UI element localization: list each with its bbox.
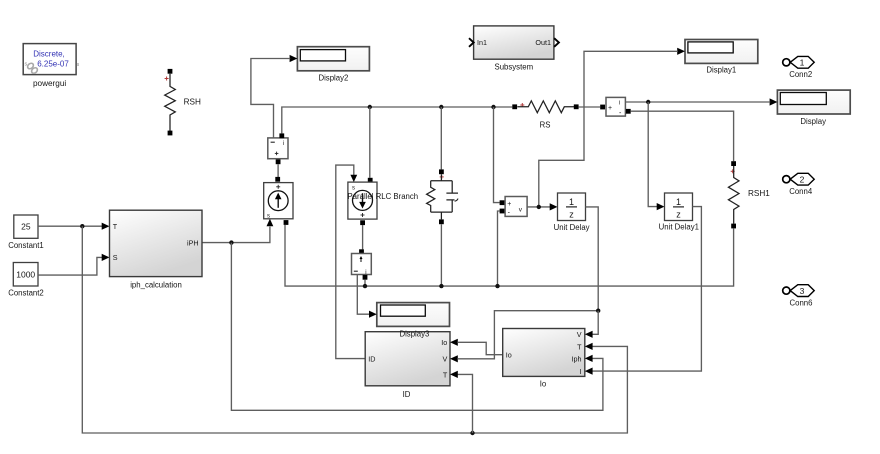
Conn6 hexagon with pin number 3 [790,285,814,297]
svg-text:Constant2: Constant2 [8,289,44,298]
current measurement i2 top port [359,249,364,254]
svg-text:Io: Io [540,379,547,388]
node bus junction to voltage measurement plus [491,105,495,109]
voltage measurement block U1 [505,197,527,217]
resistor RSH1 red plus [731,169,735,173]
svg-text:1: 1 [800,58,805,68]
svg-text:Io: Io [441,338,447,347]
wire Io block output to ID block Io input [457,342,502,354]
node bus junction to diode source [368,105,372,109]
Display3 block [377,303,450,327]
Parallel RLC Branch top port [439,169,444,174]
svg-text:s: s [267,213,270,219]
svg-text:1000: 1000 [16,269,35,279]
svg-text:Out1: Out1 [535,38,551,47]
svg-text:V: V [443,355,448,364]
wire Constant1 to iph_calculation T input [38,225,102,227]
svg-text:i: i [283,141,284,147]
resistor RSH1 bottom port [731,224,736,229]
wire Constant2 to iph_calculation S input [38,257,102,275]
wire i output junction down to Unit Delay1 input [648,102,657,207]
current measurement block i1 (top small) [268,138,288,159]
svg-text:i: i [619,101,620,107]
svg-text:Unit Delay: Unit Delay [554,223,590,232]
resistor RS [517,101,574,113]
Conn4 hexagon with pin number 2 [790,173,814,185]
controlled current source ID (down arrow) signal wire from ID block [336,165,365,359]
current measurement i1 bottom port [276,159,281,164]
svg-text:Display: Display [800,117,826,126]
Conn2 port circle [783,59,790,66]
wire from current measurement i1 to Display2 [251,59,290,139]
Unit Delay input arrowhead [550,203,558,210]
svg-text:RS: RS [540,120,551,129]
wire V distribution down to Io block V input [592,311,598,335]
node iph junction [229,240,233,244]
svg-text:1: 1 [569,197,574,207]
Conn6 port circle [783,287,790,294]
current measurement I1 left port [600,105,605,110]
svg-text:25: 25 [21,222,31,232]
svg-text:Constant1: Constant1 [8,241,44,250]
node bus junction to RLC branch [439,105,443,109]
powergui block [23,44,79,75]
Display2 input arrowhead [290,55,298,62]
svg-text:s: s [77,62,80,68]
Io block T input arrowhead [585,343,593,350]
svg-text:iph_calculation: iph_calculation [130,280,182,289]
iph_calculation S input arrowhead [102,254,110,261]
wire RLC branch to rail [440,224,442,286]
svg-text:Iph: Iph [572,354,582,363]
Display input arrowhead [770,98,778,105]
Display1 input arrowhead [677,48,685,55]
svg-text:ID: ID [403,390,411,399]
wire voltage measurement minus to rail [498,211,500,286]
wire V distribution to ID block V input [457,311,598,359]
iph_calculation subsystem block [110,210,203,276]
iph_calculation T input arrowhead [102,223,110,230]
svg-text:Io: Io [506,351,512,360]
svg-text:Subsystem: Subsystem [495,63,534,72]
Io block Iph input arrowhead [585,355,593,362]
Display1 block [685,40,758,64]
wire iph signal into source [202,227,270,243]
Constant2 block value 1000 [13,263,38,287]
wire bus to diode source positive riser [369,107,371,178]
node junction V distribution [596,309,600,313]
Display2 block [297,47,369,71]
svg-text:z: z [569,209,574,219]
resistor RSH red plus [165,77,169,81]
controlled current source Iph signal input arrowhead [267,219,274,226]
svg-text:z: z [676,209,681,219]
Subsystem Out1 chevron [554,38,559,47]
Unit Delay block [558,193,586,221]
wire i2 signal output to Display3 [357,275,370,315]
wire RS to current measurement I1 [579,106,601,108]
resistor RS red plus [520,103,524,107]
wire bottom electrical rail [285,225,734,286]
wire source ID to current measurement i2 [362,225,364,249]
svg-text:Conn6: Conn6 [790,299,813,308]
svg-text:RSH1: RSH1 [748,189,770,198]
Parallel RLC Branch bottom port [439,219,444,224]
svg-text:Display2: Display2 [318,74,348,83]
svg-text:+: + [507,201,511,208]
svg-text:Conn4: Conn4 [789,187,813,196]
wire i2 bottom port to rail [364,280,366,286]
current measurement block I1 [606,97,625,117]
wire Unit Delay output down to V distribution node [586,207,599,311]
current measurement i2 bottom port [363,275,368,280]
current measurement block i2 (lower small) [352,254,372,276]
Unit Delay1 block [665,193,693,221]
resistor RS right port [574,104,579,109]
node junction v output [537,205,541,209]
voltage measurement plus port [500,200,505,205]
controlled current source Iph top port [275,177,280,182]
node rail junction RLC [439,284,443,288]
controlled current source ID signal input arrowhead [350,175,357,182]
controlled current source ID top right port [368,178,373,183]
Conn4 port circle [783,176,790,183]
current measurement i1 top port [279,133,284,138]
svg-text:Display1: Display1 [706,65,736,74]
node junction T distribution [80,224,84,228]
wire current measurement i output to Display [625,101,770,103]
resistor RSH1 [728,166,739,224]
svg-text:I: I [580,367,582,376]
svg-text:RSH: RSH [184,97,201,106]
wire iPH riser down to Iph distribution [231,243,603,411]
Display block [777,90,850,114]
wire T junction up to ID block T input [458,374,473,433]
svg-text:ID: ID [368,354,375,363]
resistor RSH top port [168,69,173,74]
wire bus to RLC branch riser [440,107,442,169]
svg-text:S: S [113,253,118,262]
current measurement I1 minus port [626,109,631,114]
ID block V input arrowhead [450,355,458,362]
node rail junction i2 [363,284,367,288]
svg-text:powergui: powergui [33,79,66,88]
node junction i output to Unit Delay1 [646,100,650,104]
svg-text:s: s [352,185,355,191]
svg-text:2: 2 [800,174,805,184]
wire T distribution down and right to Io T riser [82,226,627,433]
svg-text:Discrete,: Discrete, [33,50,65,59]
resistor RS left port [512,104,517,109]
svg-text:6.25e-07: 6.25e-07 [37,60,69,69]
resistor RSH bottom port [168,131,173,136]
Conn2 hexagon with pin number 1 [790,56,814,68]
Display3 input arrowhead [369,311,377,318]
controlled current source ID bottom port [360,220,365,225]
Unit Delay1 input arrowhead [657,203,665,210]
svg-text:T: T [113,222,118,231]
wire i1 to controlled current source Iph [277,164,279,177]
Io block I input arrowhead [585,368,593,375]
voltage measurement minus port [500,209,505,214]
ID block Io input arrowhead [450,339,458,346]
Subsystem block [474,26,554,59]
ID subsystem block [365,332,450,386]
wire current measurement minus to RSH1 [631,111,734,161]
svg-text:In1: In1 [477,38,487,47]
resistor RSH [165,74,176,131]
svg-text:Unit Delay1: Unit Delay1 [659,222,699,231]
Subsystem In1 chevron [469,38,474,47]
wire bus to voltage measurement plus riser [494,107,500,203]
svg-text:iPH: iPH [187,238,199,247]
svg-text:3: 3 [800,286,805,296]
svg-text:1: 1 [676,197,681,207]
wire voltage measurement v to Display1 [539,51,678,207]
svg-text:+: + [608,105,612,112]
controlled current source Iph bottom right port [284,220,289,225]
svg-text:Conn2: Conn2 [789,70,812,79]
controlled current source ID (down arrow) [348,182,377,219]
svg-text:T: T [443,370,448,379]
Parallel RLC Branch resistor and capacitor [427,174,458,219]
Parallel RLC Branch red plus [440,175,444,179]
Constant1 block value 25 [14,215,38,238]
Io subsystem block [503,329,585,377]
wire Unit Delay1 output to Io block I input [592,207,701,372]
svg-text:Parallel RLC Branch: Parallel RLC Branch [347,192,418,201]
svg-text:T: T [577,342,582,351]
node junction T to ID block [470,431,474,435]
svg-text:V: V [577,330,582,339]
ID block T input arrowhead [450,371,458,378]
wire voltage measurement v output to Unit Delay [527,206,550,208]
resistor RSH1 top port [731,161,736,166]
node rail junction voltage measurement minus [495,284,499,288]
wire top electrical bus from current measurement i1 to RS [282,107,513,133]
Io block V input arrowhead [585,331,593,338]
svg-text:Display3: Display3 [399,329,429,338]
controlled current source Iph (up arrow) [264,183,293,220]
